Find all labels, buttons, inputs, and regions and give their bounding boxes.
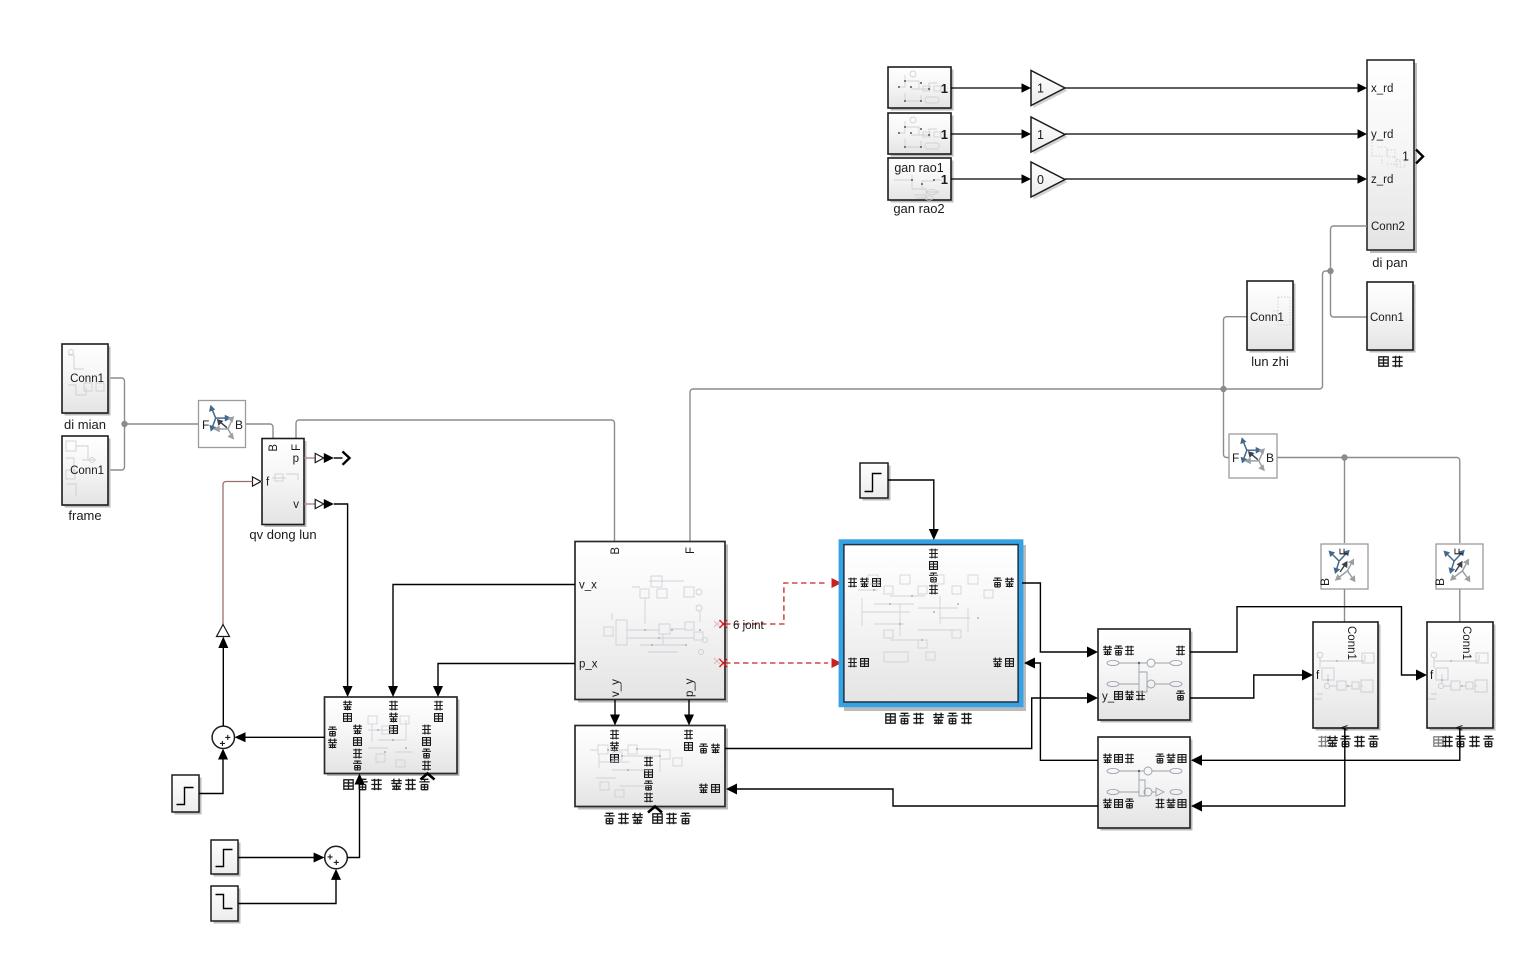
- faint inner sketch: [368, 716, 413, 767]
- svg-text:Conn1: Conn1: [1460, 626, 1472, 660]
- step block 1: [172, 775, 202, 815]
- svg-text:B: B: [1433, 578, 1447, 586]
- unconnected output chevron: [1416, 150, 1423, 164]
- gain triangle 1: [1031, 71, 1068, 109]
- faint inner sketch: [590, 745, 682, 797]
- drive-wheel balance loop subsystem: [325, 697, 460, 776]
- subsystem qv dong lun: [262, 439, 307, 528]
- svg-text:v: v: [1338, 725, 1350, 731]
- gain triangle 2: [1031, 117, 1068, 155]
- into steering input: [1087, 647, 1098, 658]
- label rear momentum wheel (overlapped): [1318, 736, 1378, 748]
- into momentum balance tops: [610, 715, 620, 726]
- red X marks at unconnected outputs: [720, 620, 728, 667]
- subsystem di mian: [62, 344, 111, 416]
- converter arrow above sum1 (up): [218, 637, 228, 649]
- into rear momentum f: [1302, 670, 1313, 681]
- svg-text:y_: y_: [1102, 691, 1115, 703]
- svg-text:1: 1: [1402, 150, 1409, 164]
- rear momentum wheel subsystem: [1313, 622, 1381, 731]
- svg-text:+: +: [219, 739, 225, 750]
- svg-text:v: v: [293, 499, 299, 511]
- svg-text:v_y: v_y: [610, 679, 622, 697]
- wire front momentum wheel v to front-speed input: [1200, 728, 1460, 760]
- steering distribution subsystem: [1098, 629, 1193, 723]
- into blue speed input (left): [1024, 658, 1035, 669]
- into y_balance input: [1087, 693, 1098, 704]
- wire junction to TS1 F: [125, 423, 200, 425]
- wire central F up and right to di pan net: [690, 271, 1331, 542]
- wire lun zhi Conn1 branch: [1224, 317, 1248, 389]
- svg-text:di mian: di mian: [64, 417, 106, 432]
- blue highlighted subsystem: drive wheel steering loop: [841, 542, 1026, 711]
- unconnected input arrow under momentum balance block: [648, 807, 662, 813]
- faint inner sketch: [604, 576, 708, 655]
- wire junction down to TS horizontal F: [1224, 389, 1230, 458]
- into sum2 left: [314, 853, 325, 863]
- wire sum1 up to PS converter: [222, 647, 224, 726]
- subsystem lun zhi: [1247, 281, 1296, 353]
- label peizhong: [1379, 356, 1403, 367]
- svg-text:di pan: di pan: [1372, 255, 1407, 270]
- wire sum2 to drive balance speed-ref: [347, 783, 359, 858]
- wire TS vertical 1 B to rear momentum wheel Conn1: [1344, 589, 1346, 622]
- svg-text:x_rd: x_rd: [1371, 83, 1393, 95]
- source subsystem block (middle, unnamed): [888, 113, 954, 157]
- into drive balance speed-ref (up): [355, 774, 365, 785]
- subsystem frame: [62, 436, 111, 508]
- svg-text:F: F: [291, 444, 303, 451]
- wire step2 to sum2: [239, 857, 317, 859]
- svg-text:1: 1: [1037, 82, 1044, 96]
- wire rear momentum wheel v to rear-speed input: [1200, 728, 1345, 806]
- gain triangle 3: [1031, 162, 1068, 200]
- unconnected input arrow under drive-wheel block: [421, 774, 435, 780]
- svg-text:Conn1: Conn1: [70, 465, 104, 477]
- into sum1 bottom (up): [218, 749, 228, 760]
- svg-text:Conn1: Conn1: [70, 373, 104, 385]
- wire speed-diff output to blue speed input: [1034, 663, 1098, 760]
- into drive balance tops: [388, 686, 398, 697]
- wire peizhong Conn1 branch: [1331, 271, 1368, 317]
- wire TS vertical 2 B to front momentum wheel Conn1: [1459, 589, 1461, 622]
- step block 4 (above blue block): [860, 463, 891, 501]
- inner icon: [1107, 659, 1182, 692]
- svg-text:y_rd: y_rd: [1371, 129, 1393, 141]
- wire steering front to front momentum wheel f: [1190, 607, 1418, 675]
- svg-text:1: 1: [941, 127, 948, 142]
- source subsystem block gan rao2 (with inner text gan rao1): [888, 158, 954, 203]
- transform sensor TS vertical 2: [1433, 544, 1483, 589]
- wires sources -> gains -> di pan: [951, 88, 1359, 179]
- label: drive wheel steering loop: [886, 713, 972, 725]
- svg-text:F: F: [1232, 451, 1239, 465]
- label: momentum wheel balance loop: [604, 813, 690, 825]
- svg-text:F: F: [1452, 548, 1466, 555]
- svg-text:Conn1: Conn1: [1250, 312, 1284, 324]
- transform sensor TS horizontal (right): [1229, 434, 1277, 478]
- svg-text:+: +: [327, 853, 333, 864]
- central plant subsystem: [575, 542, 728, 703]
- svg-text:gan rao1: gan rao1: [894, 161, 943, 175]
- label front momentum wheel (overlapped): [1434, 736, 1494, 747]
- wire frame Conn1 to junction: [108, 424, 125, 470]
- into blue top: [929, 529, 939, 540]
- red arrowheads into blue block: [832, 578, 842, 668]
- wire step4 to blue block top: [888, 480, 934, 531]
- wire steering rear to rear momentum wheel f: [1190, 675, 1304, 698]
- sum block 2: [325, 846, 348, 869]
- v output: stub, converter, arrow: [304, 503, 315, 505]
- svg-text:p: p: [293, 453, 299, 465]
- svg-text:F: F: [685, 547, 697, 554]
- wire qv v output down to drive balance sudu: [334, 504, 348, 688]
- svg-text:v: v: [1453, 725, 1465, 731]
- label: drive wheel balance loop: [344, 779, 430, 791]
- svg-text:6 joint: 6 joint: [733, 620, 764, 632]
- junction dot: [1341, 454, 1347, 460]
- transform sensor TS vertical 1: [1318, 544, 1368, 589]
- faint inner sketch: [858, 575, 993, 662]
- svg-text:p_y: p_y: [684, 678, 696, 697]
- step block 3 (down step): [211, 886, 241, 924]
- svg-text:lun zhi: lun zhi: [1251, 354, 1289, 369]
- into momentum balance speed input (left): [726, 784, 737, 795]
- red dashed wire to blue block angular-velocity input: [725, 583, 828, 663]
- svg-text:B: B: [268, 444, 280, 452]
- svg-text:z_rd: z_rd: [1371, 174, 1393, 186]
- junction dot: [121, 421, 127, 427]
- wire di pan Conn2 branch: [1331, 226, 1368, 271]
- svg-text:p_x: p_x: [579, 659, 598, 671]
- subsystem peizhong (counterweight): [1367, 282, 1416, 353]
- wire di mian Conn1 to junction: [108, 378, 125, 424]
- front momentum wheel subsystem: [1427, 622, 1496, 731]
- wire TS horizontal B to TS vertical 2 F: [1277, 458, 1460, 544]
- svg-text:v_x: v_x: [579, 580, 597, 592]
- svg-text:Conn2: Conn2: [1371, 221, 1405, 233]
- PS converter triangle (up) above sum1: [217, 625, 230, 637]
- wire step1 to sum1 bottom: [199, 758, 223, 794]
- wire central v_y to momentum balance jiaosudu: [614, 700, 616, 717]
- svg-text:F: F: [1337, 548, 1351, 555]
- svg-text:qv dong lun: qv dong lun: [249, 527, 316, 542]
- svg-text:B: B: [1266, 451, 1274, 465]
- di pan block: [1367, 60, 1423, 253]
- PS converter triangle at f input: [253, 477, 262, 486]
- svg-text:1: 1: [941, 81, 948, 96]
- svg-text:+: +: [225, 733, 231, 744]
- into rear-speed (left): [1191, 801, 1202, 812]
- momentum-wheel balance loop subsystem: [575, 726, 728, 810]
- svg-text:0: 0: [1037, 173, 1044, 187]
- svg-text:B: B: [1318, 578, 1332, 586]
- into front momentum f: [1416, 670, 1427, 681]
- svg-text:B: B: [235, 418, 243, 432]
- svg-text:1: 1: [941, 172, 948, 187]
- wire qv dong lun F to central B: [296, 420, 615, 542]
- svg-text:Conn1: Conn1: [1345, 626, 1357, 660]
- transform sensor TS1: [199, 401, 246, 448]
- inner icon: [1107, 767, 1182, 796]
- wire branch to TS vertical 1 F: [1344, 458, 1346, 544]
- into front-speed (left): [1191, 755, 1202, 766]
- sum block 1: [212, 726, 234, 750]
- svg-text:F: F: [202, 418, 209, 432]
- source subsystem block (top, unnamed): [888, 67, 954, 111]
- PS wire from gain up to f: [223, 482, 253, 636]
- svg-text:frame: frame: [68, 508, 101, 523]
- step block 2: [211, 840, 241, 877]
- wire central p_x to drive balance jiaodu: [438, 664, 575, 689]
- wire blue output to steering block: [1022, 583, 1089, 652]
- into sum2 bottom: [331, 869, 341, 880]
- wire drive balance output to sum1: [244, 736, 325, 738]
- svg-text:Conn1: Conn1: [1370, 312, 1404, 324]
- junction dot lun zhi net: [1220, 386, 1226, 392]
- speed sum/difference subsystem: [1098, 737, 1193, 831]
- svg-text:1: 1: [1037, 128, 1044, 142]
- wire speed-sum output to momentum balance speed input: [736, 789, 1098, 806]
- wire central v_x to drive balance jiaosudu: [393, 585, 575, 689]
- wire step3 to sum2 bottom: [239, 878, 337, 904]
- p output: stub, converter, arrow, chevron: [304, 457, 315, 459]
- svg-text:B: B: [610, 547, 622, 555]
- into sum1 right: [235, 732, 246, 742]
- wire TS1 B to qv dong lun B: [246, 424, 274, 439]
- wire central p_y to momentum balance jiaodu: [688, 700, 690, 717]
- svg-text:+: +: [333, 858, 339, 869]
- wire momentum balance output to y_balance input: [725, 698, 1089, 749]
- arrowheads: [218, 529, 1427, 880]
- svg-text:gan rao2: gan rao2: [893, 201, 944, 216]
- junction dot di pan net: [1327, 268, 1333, 274]
